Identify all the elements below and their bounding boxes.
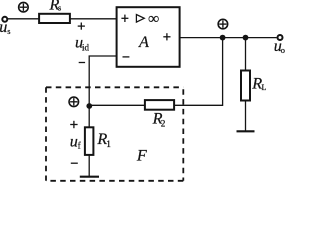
svg-text:id: id (82, 43, 90, 53)
svg-text:u: u (0, 18, 7, 36)
svg-text:s: s (7, 27, 10, 36)
svg-text:s: s (58, 3, 61, 12)
svg-text:2: 2 (161, 120, 166, 130)
svg-text:L: L (262, 83, 267, 92)
svg-text:F: F (136, 147, 148, 165)
svg-text:o: o (281, 46, 285, 55)
svg-text:A: A (138, 33, 149, 51)
svg-text:1: 1 (106, 140, 111, 150)
svg-text:∞: ∞ (148, 10, 159, 27)
